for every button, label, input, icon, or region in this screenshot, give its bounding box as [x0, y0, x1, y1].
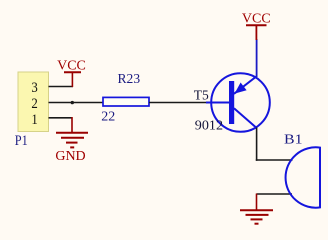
svg-text:1: 1: [31, 112, 37, 128]
svg-text:B1: B1: [284, 132, 303, 147]
svg-text:VCC: VCC: [242, 12, 271, 27]
ground GND (left) bar2: [61, 137, 84, 139]
wire pin3 to VCC: [49, 86, 74, 88]
buzzer B1 body: [286, 147, 320, 207]
wire resistor to transistor base: [149, 102, 208, 104]
ground (right) bar1: [240, 209, 273, 211]
ground GND (left) bar4: [70, 146, 74, 148]
svg-text:9012: 9012: [195, 118, 223, 133]
transistor emitter pin (vertical): [256, 39, 258, 77]
ground (right) stem: [256, 194, 258, 211]
svg-text:GND: GND: [55, 149, 85, 164]
wire collector down: [256, 128, 258, 161]
svg-text:2: 2: [31, 96, 37, 112]
transistor base bar: [229, 81, 234, 124]
junction dot on pin2 wire: [71, 101, 74, 104]
transistor base pin: [206, 102, 229, 104]
power port VCC (top) stem: [255, 25, 257, 40]
wire pin1 to ground: [49, 117, 73, 119]
transistor Q T5 circle: [211, 73, 270, 132]
svg-text:3: 3: [31, 80, 37, 96]
transistor collector lead: [234, 108, 257, 128]
power port VCC (top) bar: [246, 24, 267, 26]
ground (right) bar2: [246, 214, 269, 216]
connector P1 body: [18, 72, 49, 132]
ground GND (left) bar3: [66, 142, 78, 144]
transistor emitter lead: [234, 76, 257, 94]
ground GND (left) bar1: [56, 132, 88, 134]
svg-text:T5: T5: [194, 87, 209, 102]
wire buzzer bottom to ground: [257, 193, 293, 195]
transistor emitter arrow (PNP): [235, 83, 247, 94]
ground GND (left) stem: [71, 117, 73, 133]
resistor R23 body: [103, 97, 149, 106]
power port VCC (left) stem: [71, 72, 73, 87]
wire pin2 to resistor: [49, 102, 104, 104]
wire collector to buzzer: [256, 159, 293, 161]
svg-text:22: 22: [101, 109, 115, 124]
svg-text:VCC: VCC: [57, 58, 86, 73]
svg-text:P1: P1: [15, 133, 28, 149]
svg-text:R23: R23: [118, 72, 141, 87]
ground (right) bar3: [251, 218, 263, 220]
power port VCC (left) bar: [64, 71, 81, 73]
ground (right) bar4: [255, 223, 259, 225]
